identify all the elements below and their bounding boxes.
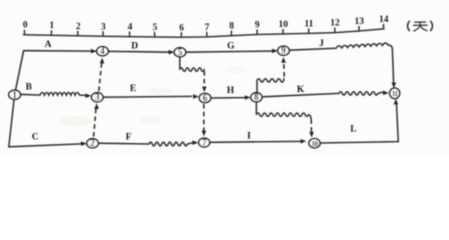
svg-text:14: 14: [379, 15, 389, 25]
activity K line with free float wave: [262, 92, 382, 97]
svg-text:7: 7: [202, 137, 207, 147]
activity D line: [109, 50, 173, 53]
activity J line with free float wave: [289, 43, 393, 83]
activity I line: [210, 140, 300, 143]
svg-text:6: 6: [203, 93, 208, 103]
dummy 5 to 6 drop: [203, 71, 205, 86]
activity F wavy line: [99, 142, 193, 146]
svg-text:3: 3: [95, 92, 100, 102]
svg-text:13: 13: [354, 17, 364, 27]
svg-text:A: A: [45, 40, 52, 50]
svg-text:2: 2: [90, 138, 95, 148]
node 8 circle: [251, 93, 262, 102]
dashed logical links: [94, 62, 312, 137]
svg-text:10: 10: [278, 20, 288, 30]
activity labels: [26, 39, 357, 142]
dummy into 3 from 2 (up): [94, 103, 99, 109]
svg-text:L: L: [350, 125, 356, 135]
node 5 circle: [174, 48, 186, 57]
link 5-6: drop then free-float wave: [180, 57, 204, 71]
svg-text:2: 2: [76, 22, 81, 32]
svg-text:1: 1: [49, 21, 54, 31]
dummy 8 to 9 rise: [283, 63, 285, 77]
into 4 (A): [91, 49, 97, 54]
svg-text:H: H: [227, 86, 235, 96]
activity A line: [24, 50, 95, 52]
timescale ruler line: [24, 29, 385, 38]
into 9 (G): [272, 49, 278, 54]
dummy into 4 from 3 (up): [100, 58, 105, 64]
svg-text:I: I: [247, 132, 251, 142]
dummy 2 to 3: [94, 106, 97, 137]
activity H line: [211, 97, 244, 99]
svg-text:8: 8: [254, 92, 259, 102]
svg-text:J: J: [319, 39, 324, 49]
svg-text:11: 11: [392, 90, 399, 98]
into 10 (I): [301, 139, 307, 144]
dummy into 6 from 5 (down): [202, 87, 207, 93]
svg-text:F: F: [126, 133, 132, 143]
node 11 circle: [390, 88, 400, 99]
arrowheads: [81, 49, 398, 146]
node 7 circle: [199, 138, 210, 147]
svg-text:4: 4: [100, 46, 105, 56]
unit label (tian): [408, 21, 433, 31]
dummy into 9 from 8 (up): [281, 57, 286, 63]
svg-text:12: 12: [330, 19, 340, 29]
svg-text:11: 11: [304, 19, 313, 29]
svg-text:6: 6: [179, 23, 184, 33]
dummy into 10 from 8 (down): [309, 132, 314, 138]
svg-text:4: 4: [128, 23, 133, 33]
dummy 3 to 4: [99, 62, 102, 92]
left border from A-corner through node1 to C-corner: [9, 51, 24, 147]
into 5 (D): [169, 50, 175, 55]
svg-text:D: D: [131, 42, 138, 52]
svg-text:9: 9: [281, 46, 286, 56]
activity E line: [104, 95, 192, 98]
ruler numbers 0-14: [23, 15, 389, 33]
into 2 (C): [81, 141, 87, 146]
node 4 circle: [97, 47, 109, 56]
svg-text:5: 5: [153, 23, 158, 33]
activity L line up into node 11: [321, 105, 399, 144]
link 8-10: drop then free-float wave: [256, 102, 311, 119]
node 2 circle: [87, 139, 99, 148]
svg-text:1: 1: [12, 90, 17, 100]
node 3 circle: [92, 93, 104, 102]
svg-text:E: E: [130, 84, 136, 94]
activity B wavy line: [20, 93, 85, 96]
svg-text:10: 10: [312, 140, 319, 148]
activity C line: [9, 144, 81, 147]
into 7 (F): [193, 140, 199, 145]
dummy into 7 from 6 (down): [202, 131, 207, 137]
node 1 circle: [9, 90, 21, 99]
link 8-9: rise then free-float wave: [257, 79, 284, 92]
node 6 circle: [199, 93, 211, 102]
node 10 circle: [309, 139, 320, 148]
svg-text:8: 8: [229, 22, 234, 32]
into 6 (E): [193, 94, 199, 99]
svg-text:K: K: [297, 85, 305, 95]
svg-text:0: 0: [23, 21, 28, 31]
into 11 left (K): [383, 91, 389, 96]
into 11 top (J): [392, 83, 397, 89]
node 9 circle: [278, 46, 290, 55]
dummy 6 to 7 drop: [203, 104, 205, 131]
svg-text:G: G: [227, 41, 235, 51]
svg-text:9: 9: [255, 21, 260, 31]
into 8 (H): [245, 95, 251, 100]
svg-text:B: B: [26, 82, 33, 92]
into 11 bottom (L): [394, 99, 399, 105]
dummy 8 to 10 drop: [310, 119, 312, 131]
node numbers: [12, 46, 398, 149]
svg-text:C: C: [32, 133, 39, 143]
activity G line: [186, 51, 276, 52]
ruler tick marks: [25, 24, 384, 37]
svg-text:3: 3: [101, 22, 106, 32]
into 3 (B): [85, 94, 91, 99]
svg-text:7: 7: [205, 23, 210, 33]
svg-text:5: 5: [178, 47, 183, 57]
